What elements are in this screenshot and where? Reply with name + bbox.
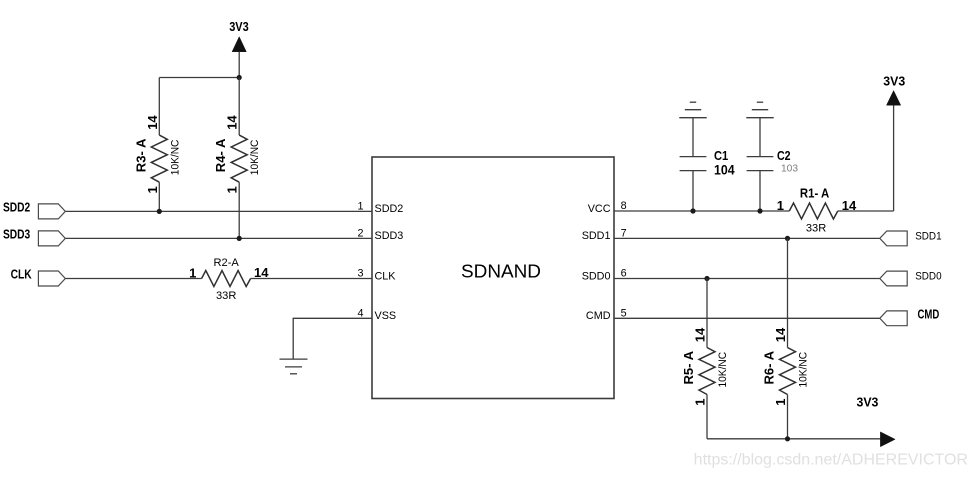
port connector SDD3 (input tag) — [38, 231, 65, 246]
U1 pin name VSS — [375, 310, 397, 322]
wire net SDD0 (U1 pin6 to port) — [614, 278, 880, 280]
U1 pin number 1 — [357, 200, 363, 212]
svg-text:SDD3: SDD3 — [3, 228, 30, 242]
R6-A refdes label (rotated) — [762, 350, 777, 384]
svg-text:CLK: CLK — [375, 270, 397, 282]
junction dot SDD1/R6-A — [785, 236, 790, 241]
power symbol 3V3 (top right arrow) — [887, 91, 901, 106]
capacitor C1 body (plates) — [680, 157, 707, 171]
port connector SDD0 (output tag) — [880, 271, 907, 286]
svg-text:R2-A: R2-A — [214, 257, 240, 269]
R3-A refdes label (rotated) — [133, 138, 148, 172]
junction dot 3V3/R4-A top — [237, 75, 242, 80]
svg-text:14: 14 — [225, 115, 240, 130]
svg-text:3V3: 3V3 — [229, 20, 249, 34]
U1 pin name SDD1 — [582, 230, 611, 242]
R4-A pin 1 label (rotated) — [225, 186, 240, 193]
C1 refdes label — [714, 148, 728, 163]
watermark text — [694, 452, 968, 469]
C1 bottom lead wire — [692, 171, 694, 211]
U1 pin number 5 — [621, 307, 627, 319]
R2-A value label 33R — [216, 290, 236, 302]
R6-A value label 10K/NC (rotated) — [798, 352, 810, 388]
IC U1 SDNAND body — [372, 157, 614, 399]
svg-text:C1: C1 — [714, 148, 728, 163]
svg-text:6: 6 — [621, 268, 627, 280]
R1-A refdes label — [800, 185, 830, 200]
R6-A pin 14 label (rotated) — [773, 327, 788, 342]
resistor R4-A body — [231, 78, 247, 239]
R5-A refdes label (rotated) — [681, 350, 696, 384]
port label SDD1 — [915, 230, 941, 242]
resistor R6-A body — [780, 238, 796, 438]
U1 pin number 6 — [621, 268, 627, 280]
wire net SDD3 (port to U1 pin2) — [65, 237, 372, 239]
U1 pin name SDD3 — [375, 230, 404, 242]
R5-A pin 1 label (rotated) — [693, 399, 708, 406]
port connector CLK (input tag) — [38, 271, 65, 286]
R4-A value label 10K/NC (rotated) — [249, 140, 261, 176]
C2 value label 103 — [781, 164, 798, 175]
wire net VCC (R1-A pin14 to 3V3 riser) — [838, 210, 894, 212]
svg-text:10K/NC: 10K/NC — [249, 140, 261, 176]
wire net CMD (U1 pin5 to port) — [614, 317, 880, 319]
svg-text:2: 2 — [357, 227, 363, 239]
resistor R2-A body — [202, 271, 251, 287]
R4-A pin 14 label (rotated) — [225, 115, 240, 130]
R3-A pin 14 label (rotated) — [145, 115, 160, 130]
svg-text:R4- A: R4- A — [213, 138, 228, 172]
C2 bottom lead wire — [759, 171, 761, 211]
port label CLK — [11, 268, 32, 282]
wire net CLK right segment (R2-A pin14 to U1 pin3) — [251, 278, 372, 280]
junction dot R6-A/3V3 rail — [785, 436, 790, 441]
R6-A pin 1 label (rotated) — [773, 399, 788, 406]
svg-text:SDD2: SDD2 — [375, 203, 404, 215]
wire 3V3 bottom rail (R5-A to arrow) — [707, 438, 880, 440]
svg-text:R3- A: R3- A — [133, 138, 148, 172]
U1 pin name VCC — [588, 203, 611, 215]
R2-A pin 1 label — [189, 265, 196, 280]
R1-A value label 33R — [806, 223, 826, 235]
svg-text:R6- A: R6- A — [762, 350, 777, 384]
svg-text:14: 14 — [842, 198, 857, 213]
wire 3V3 riser (corner up to arrow) — [893, 105, 895, 211]
R4-A refdes label (rotated) — [213, 138, 228, 172]
port label SDD2 — [3, 201, 30, 215]
wire net VSS (U1 pin4 to ground) — [293, 318, 372, 359]
resistor R5-A body — [699, 279, 715, 439]
C1 top lead wire — [692, 118, 694, 157]
earth/chassis symbol above C1 — [679, 102, 706, 118]
svg-text:1: 1 — [145, 186, 160, 193]
svg-text:8: 8 — [621, 200, 627, 212]
svg-text:1: 1 — [693, 399, 708, 406]
svg-text:103: 103 — [781, 164, 798, 175]
port label SDD3 — [3, 228, 30, 242]
svg-text:1: 1 — [189, 265, 196, 280]
U1 pin name SDD0 — [582, 270, 611, 282]
junction dot R3-A/SDD2 — [157, 209, 162, 214]
svg-text:4: 4 — [357, 307, 363, 319]
svg-text:SDD3: SDD3 — [375, 230, 404, 242]
svg-text:SDD2: SDD2 — [3, 201, 30, 215]
U1 pin number 3 — [357, 268, 363, 280]
svg-text:14: 14 — [254, 265, 269, 280]
U1 pin name SDD2 — [375, 203, 404, 215]
resistor R1-A body — [789, 203, 838, 219]
power symbol 3V3 (top left arrow) — [232, 37, 246, 52]
svg-text:SDD1: SDD1 — [915, 230, 941, 242]
svg-text:R1- A: R1- A — [800, 185, 830, 200]
svg-text:VCC: VCC — [588, 203, 611, 215]
R3-A value label 10K/NC (rotated) — [169, 140, 181, 176]
svg-text:SDNAND: SDNAND — [461, 260, 541, 281]
U1 pin name CLK — [375, 270, 397, 282]
R1-A pin 1 label — [777, 198, 784, 213]
3V3 net label (top left) — [229, 20, 249, 34]
C2 top lead wire — [759, 118, 761, 157]
svg-text:33R: 33R — [216, 290, 236, 302]
R3-A pin 1 label (rotated) — [145, 186, 160, 193]
wire net VCC (U1 pin8 to R1-A pin1) — [614, 210, 789, 212]
earth/chassis symbol above C2 — [746, 102, 773, 118]
svg-text:SDD0: SDD0 — [582, 270, 611, 282]
R5-A value label 10K/NC (rotated) — [717, 352, 729, 388]
U1 pin name CMD — [586, 310, 611, 322]
ground symbol GND — [280, 359, 308, 374]
port label SDD0 — [915, 271, 941, 283]
U1 pin number 8 — [621, 200, 627, 212]
svg-text:CLK: CLK — [11, 268, 32, 282]
power symbol 3V3 (bottom right arrow) — [880, 432, 895, 447]
wire net SDD1 (U1 pin7 to port) — [614, 237, 880, 239]
svg-text:https://blog.csdn.net/ADHEREVI: https://blog.csdn.net/ADHEREVICTOR — [694, 452, 968, 469]
3V3 net label (bottom right) — [857, 396, 879, 410]
junction dot C1/VCC — [690, 208, 695, 213]
R1-A pin 14 label — [842, 198, 857, 213]
svg-text:7: 7 — [621, 227, 627, 239]
svg-text:14: 14 — [693, 327, 708, 342]
R2-A refdes label — [214, 257, 240, 269]
svg-text:3V3: 3V3 — [883, 75, 905, 89]
port connector SDD2 (input tag) — [38, 204, 65, 219]
port label CMD — [918, 307, 940, 321]
svg-text:10K/NC: 10K/NC — [717, 352, 729, 388]
svg-text:3: 3 — [357, 268, 363, 280]
3V3 net label (top right) — [883, 75, 905, 89]
junction dot SDD0/R5-A — [704, 276, 709, 281]
wire 3V3 vertical (arrow to junction) — [238, 52, 240, 78]
svg-text:10K/NC: 10K/NC — [169, 140, 181, 176]
svg-text:CMD: CMD — [586, 310, 611, 322]
U1 pin number 7 — [621, 227, 627, 239]
svg-text:14: 14 — [145, 115, 160, 130]
svg-text:104: 104 — [714, 163, 735, 178]
U1 pin number 4 — [357, 307, 363, 319]
svg-text:33R: 33R — [806, 223, 826, 235]
wire net SDD2 (port to U1 pin1) — [65, 210, 372, 212]
wire 3V3 horizontal (R3-A top to junction) — [159, 77, 239, 79]
junction dot C2/VCC — [757, 208, 762, 213]
svg-text:5: 5 — [621, 307, 627, 319]
resistor R3-A body — [151, 78, 167, 212]
U1 pin number 2 — [357, 227, 363, 239]
svg-text:C2: C2 — [777, 148, 791, 163]
capacitor C2 body (plates) — [747, 157, 774, 171]
R5-A pin 14 label (rotated) — [693, 327, 708, 342]
svg-text:1: 1 — [225, 186, 240, 193]
svg-text:14: 14 — [773, 327, 788, 342]
wire net CLK left segment (port to R2-A pin1) — [65, 278, 201, 280]
port connector SDD1 (output tag) — [880, 231, 907, 246]
svg-text:1: 1 — [357, 200, 363, 212]
svg-text:SDD0: SDD0 — [915, 271, 941, 283]
R2-A pin 14 label — [254, 265, 269, 280]
svg-text:1: 1 — [773, 399, 788, 406]
svg-text:10K/NC: 10K/NC — [798, 352, 810, 388]
svg-text:1: 1 — [777, 198, 784, 213]
svg-text:VSS: VSS — [375, 310, 397, 322]
svg-text:3V3: 3V3 — [857, 396, 879, 410]
svg-text:R5- A: R5- A — [681, 350, 696, 384]
junction dot R4-A/SDD3 — [237, 236, 242, 241]
C2 refdes label — [777, 148, 791, 163]
svg-text:SDD1: SDD1 — [582, 230, 611, 242]
svg-text:CMD: CMD — [918, 307, 940, 321]
port connector CMD (output tag) — [880, 311, 907, 326]
C1 value label 104 — [714, 163, 735, 178]
